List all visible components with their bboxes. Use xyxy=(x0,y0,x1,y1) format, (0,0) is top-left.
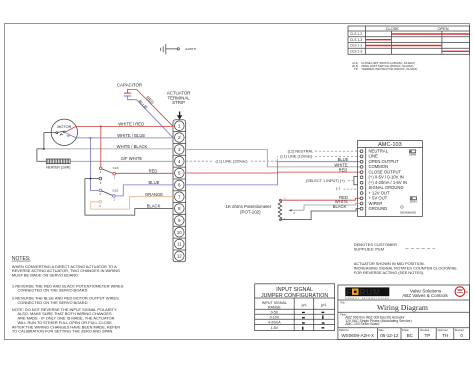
svg-text:THERMAL PROTECTOR (250VAC, 6A: THERMAL PROTECTOR (250VAC, 6A MAX) xyxy=(361,67,417,71)
actuator terminal strip label xyxy=(167,91,191,105)
svg-text:BLACK: BLACK xyxy=(147,204,161,209)
capacitor C plates xyxy=(124,92,131,94)
svg-text:JUMPER CONFIGURATION: JUMPER CONFIGURATION xyxy=(261,293,328,299)
wire motor red diagonal xyxy=(66,126,76,131)
svg-text:11: 11 xyxy=(177,242,182,247)
svg-text:(L1) LINE (120vac): (L1) LINE (120vac) xyxy=(280,155,313,159)
wire dashed L1 cont xyxy=(251,156,278,161)
AMC pin 7 xyxy=(360,181,363,184)
AMC pin 10 xyxy=(360,197,363,200)
svg-text:WHITE / BLUE: WHITE / BLUE xyxy=(117,133,145,138)
svg-text:OPEN: OPEN xyxy=(437,26,448,31)
jumper configuration table xyxy=(255,284,335,331)
svg-text:WS0609-A2H-X: WS0609-A2H-X xyxy=(341,333,374,338)
wire red drop to CLS xyxy=(100,126,102,166)
AMC pin 11 xyxy=(360,202,363,205)
svg-text:Drawn: Drawn xyxy=(402,329,410,332)
wire dashed minus to SIGNAL GROUND xyxy=(344,188,358,190)
wire terminal 6 to AMC OPEN OUTPUT xyxy=(186,162,361,185)
svg-text:CLOSE: CLOSE xyxy=(386,26,400,31)
notes paragraph 3 xyxy=(12,296,119,305)
FORUM logo xyxy=(345,287,389,300)
svg-text:RED: RED xyxy=(339,167,348,172)
svg-text:Approved: Approved xyxy=(437,329,448,332)
svg-text:1-5V: 1-5V xyxy=(271,326,279,330)
svg-text:BLACK: BLACK xyxy=(333,204,347,209)
svg-text:CLS: CLS xyxy=(113,166,119,170)
bracket input select xyxy=(354,176,358,184)
wire RED CLS to terminal 5 xyxy=(116,172,174,174)
svg-text:DWG No.: DWG No. xyxy=(339,329,350,332)
AMC pin 9 xyxy=(360,192,363,195)
svg-text:TP: TP xyxy=(424,333,430,338)
svg-text:STRIP: STRIP xyxy=(172,100,185,105)
wire black to CLS terminal 3 xyxy=(85,178,99,180)
bottom row values xyxy=(341,333,463,338)
svg-text:4: 4 xyxy=(178,159,181,164)
svg-text:(SELECT 1 INPUT) (+): (SELECT 1 INPUT) (+) xyxy=(306,179,345,183)
red bar CLS 1-2 xyxy=(391,33,469,35)
svg-text:RED: RED xyxy=(149,168,158,173)
switch OLS xyxy=(99,189,119,208)
terminal 3 xyxy=(175,145,185,155)
svg-text:ENERGY TECHNOLOGIES: ENERGY TECHNOLOGIES xyxy=(345,298,389,300)
svg-text:CONNECTED ON THE SERVO BOARD.: CONNECTED ON THE SERVO BOARD. xyxy=(18,300,89,305)
part description xyxy=(345,316,411,326)
svg-text:SPAN: SPAN xyxy=(409,153,416,157)
red certification logo xyxy=(455,287,468,297)
node blue-black junction xyxy=(90,178,92,180)
trimmer DEADBAND xyxy=(400,206,416,215)
svg-text:3: 3 xyxy=(178,147,181,152)
svg-text:2: 2 xyxy=(178,135,181,140)
svg-text:TH: TH xyxy=(442,333,448,338)
terminal 7 xyxy=(175,192,185,202)
notes paragraph 4 xyxy=(12,307,117,325)
AMC pin 12 xyxy=(360,207,363,210)
svg-text:5: 5 xyxy=(178,171,181,176)
svg-text:(+) 0-5V / 0-10V IN: (+) 0-5V / 0-10V IN xyxy=(369,175,404,180)
AMC pin 4 xyxy=(360,166,363,169)
svg-text:F: F xyxy=(346,287,351,297)
thermal protector TP inside motor xyxy=(51,131,70,138)
terminal 9 xyxy=(175,216,185,226)
wire heater branch xyxy=(37,149,46,161)
notes paragraph 2 xyxy=(12,283,124,292)
svg-text:FOR REVERSE ACTING (SEE NOTES): FOR REVERSE ACTING (SEE NOTES). xyxy=(354,270,424,275)
svg-text:0-5V: 0-5V xyxy=(271,310,279,314)
wire dashed select input xyxy=(348,180,353,182)
svg-text:0: 0 xyxy=(460,333,463,338)
svg-text:MOTOR: MOTOR xyxy=(57,125,71,129)
AMC pin 3 xyxy=(360,160,363,163)
potentiometer POT-102 xyxy=(278,198,295,221)
terminal 8 xyxy=(175,204,185,214)
arrow to terminal strip xyxy=(177,112,182,120)
svg-text:GROUND: GROUND xyxy=(369,206,388,211)
wire RED pot to +5V OUT xyxy=(281,198,360,200)
svg-text:CLS 1-2: CLS 1-2 xyxy=(350,32,362,36)
wire motor common to junction xyxy=(44,133,51,149)
wire WHITE wiper to WIPER xyxy=(291,204,360,211)
svg-text:G/F WHITE: G/F WHITE xyxy=(121,156,143,161)
AMC pin 8 xyxy=(360,186,363,189)
wire terminal 4 dashed L1 LINE xyxy=(186,160,212,162)
svg-text:HEATER (20W): HEATER (20W) xyxy=(46,166,70,170)
svg-text:AMC-103 Servo Board: AMC-103 Servo Board xyxy=(345,322,379,326)
terminal 1 xyxy=(175,121,185,131)
terminal strip cell separators xyxy=(173,132,186,250)
svg-text:CAPACITOR: CAPACITOR xyxy=(117,82,142,87)
dashed sample line xyxy=(405,248,435,250)
svg-text:DEADBAND: DEADBAND xyxy=(400,210,416,214)
svg-text:WHITE / RED: WHITE / RED xyxy=(118,121,144,126)
svg-text:(POT-102): (POT-102) xyxy=(240,209,261,214)
terminal 11 xyxy=(175,239,185,249)
wire WHITE/RED motor to terminal 1 xyxy=(76,125,173,127)
svg-text:12: 12 xyxy=(177,254,182,259)
red bar OLS 1-2 xyxy=(366,45,442,47)
svg-text:Wiring Diagram: Wiring Diagram xyxy=(377,303,428,312)
bottom row headers xyxy=(339,329,465,332)
wire BLACK to terminal 8 xyxy=(85,179,173,216)
svg-text:RANGE: RANGE xyxy=(268,305,281,309)
terminal 6 xyxy=(175,180,185,190)
trimmer SPAN xyxy=(409,150,416,157)
svg-text:SUPPLIED ITEM: SUPPLIED ITEM xyxy=(354,247,384,252)
svg-text:WHITE / BLACK: WHITE / BLACK xyxy=(117,144,148,149)
wire G/F WHITE heater to terminal 4 xyxy=(70,160,173,162)
AMC pin 1 xyxy=(360,150,363,153)
earth ground symbol xyxy=(161,44,180,54)
terminal 2 xyxy=(175,133,185,143)
svg-text:ZERO: ZERO xyxy=(410,200,417,204)
terminal 10 xyxy=(175,227,185,237)
AMC pin 2 xyxy=(360,155,363,158)
svg-text:CONNECTED ON THE SERVO BOARD.: CONNECTED ON THE SERVO BOARD. xyxy=(18,288,89,293)
terminal 5 xyxy=(175,168,185,178)
wire WHITE/BLUE motor to terminal 2 xyxy=(76,137,173,139)
red bar OLS 1-3 xyxy=(442,50,469,52)
notes paragraph 5 xyxy=(12,324,120,333)
svg-text:BC: BC xyxy=(407,333,414,338)
svg-text:OLS 1-3: OLS 1-3 xyxy=(350,50,362,54)
svg-text:Date: Date xyxy=(379,329,385,332)
svg-text:OLS 1-2: OLS 1-2 xyxy=(350,44,362,48)
svg-text:0-10V: 0-10V xyxy=(270,315,280,319)
limit switch timing table xyxy=(348,26,470,54)
svg-text:TP:: TP: xyxy=(354,67,359,71)
svg-text:MUST BE MADE ON SERVO BOARD:: MUST BE MADE ON SERVO BOARD: xyxy=(12,272,79,277)
svg-text:ORANGE: ORANGE xyxy=(145,192,163,197)
svg-text:Revision: Revision xyxy=(455,329,465,332)
svg-text:10: 10 xyxy=(177,230,182,235)
wire dashed to NEUTRAL pin xyxy=(315,150,360,152)
title block bottom row dividers xyxy=(378,328,454,340)
svg-text:ABZ: ABZ xyxy=(457,288,463,292)
wire dashed to LINE pin xyxy=(315,155,360,157)
actuator position note xyxy=(354,261,458,275)
svg-text:(L2) NEUTRAL: (L2) NEUTRAL xyxy=(288,149,314,153)
svg-text:®: ® xyxy=(385,289,387,292)
wire terminal 5 to AMC CLOSE OUTPUT xyxy=(186,171,361,174)
AMC pin 5 xyxy=(360,171,363,174)
svg-text:Checked: Checked xyxy=(420,329,430,332)
wire blue drop to OLS xyxy=(90,138,99,191)
wire capacitor red lead xyxy=(128,89,173,126)
svg-text:TO CALIBRATION FOR SETTING THE: TO CALIBRATION FOR SETTING THE ZERO AND … xyxy=(12,329,114,334)
node motor common junction xyxy=(43,148,45,150)
svg-text:Title:: Title: xyxy=(340,302,345,305)
wire capacitor blue lead xyxy=(128,96,173,138)
svg-text:(L1) LINE (120vac): (L1) LINE (120vac) xyxy=(215,159,248,163)
heater R1 body xyxy=(46,159,70,164)
wire ORANGE OLS to terminal 7 xyxy=(91,197,173,209)
svg-text:6: 6 xyxy=(178,183,181,188)
motor M1 circle xyxy=(51,119,77,145)
switch CLS xyxy=(99,166,118,185)
node red junction xyxy=(100,126,102,128)
terminal 4 xyxy=(175,156,185,166)
wire motor blue diagonal xyxy=(66,133,76,138)
svg-text:8: 8 xyxy=(178,206,181,211)
wire terminal 3 to AMC COMMON xyxy=(186,149,361,167)
title block row lines xyxy=(338,300,470,328)
svg-text:ABZ Valves & Controls: ABZ Valves & Controls xyxy=(402,293,448,298)
svg-text:+ 12V OUT: + 12V OUT xyxy=(369,190,391,195)
AMC-103 box xyxy=(358,141,423,217)
wire WHITE/BLACK to terminal 3 xyxy=(44,148,173,150)
AMC pin 6 xyxy=(360,176,363,179)
svg-text:9: 9 xyxy=(178,218,181,223)
svg-text:LINE: LINE xyxy=(369,154,379,159)
terminal 12 xyxy=(175,251,185,261)
svg-text:NOTES:: NOTES: xyxy=(12,256,31,262)
AMC header line xyxy=(358,148,423,217)
svg-text:7: 7 xyxy=(178,194,181,199)
svg-text:1: 1 xyxy=(178,123,181,128)
svg-text:CLS 1-3: CLS 1-3 xyxy=(350,38,362,42)
svg-text:OLS: OLS xyxy=(112,189,118,193)
title block frame xyxy=(338,285,470,340)
red bar CLS 1-3 xyxy=(366,39,392,41)
svg-text:4-20mA: 4-20mA xyxy=(268,321,281,325)
svg-text:EARTH: EARTH xyxy=(186,47,196,51)
svg-text:BLUE: BLUE xyxy=(149,180,160,185)
node blue junction xyxy=(90,137,92,139)
trimmer ZERO xyxy=(410,197,417,204)
svg-text:1K ohms Potentiometer: 1K ohms Potentiometer xyxy=(225,204,271,209)
denotes customer supplied item note xyxy=(354,242,397,252)
wire BLUE OLS to terminal 6 xyxy=(115,185,173,196)
notes paragraph 1 xyxy=(12,264,120,278)
svg-text:RUM: RUM xyxy=(359,287,380,297)
wire BLACK pot to GROUND xyxy=(281,209,360,220)
svg-text:06-12-12: 06-12-12 xyxy=(380,333,399,338)
terminal strip TB1 body xyxy=(173,120,186,262)
